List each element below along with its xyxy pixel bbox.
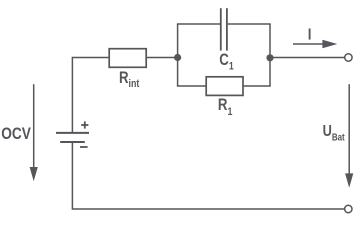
OCV arrow	[33, 84, 35, 168]
wire loop top left segment to C1	[177, 23, 220, 25]
battery bottom plate (-)	[60, 141, 85, 143]
terminal bottom-right (open circle)	[345, 205, 352, 212]
resistor Rint	[109, 49, 146, 68]
battery top plate (+)	[56, 132, 89, 134]
battery plus sign	[81, 121, 88, 128]
wire C1 to loop top right segment	[228, 23, 271, 25]
capacitor C1 plates	[220, 8, 222, 50]
svg-text:R1: R1	[218, 96, 233, 118]
terminal top-right (open circle)	[345, 54, 352, 61]
svg-text:Rint: Rint	[119, 69, 140, 90]
wire Rint to node A	[146, 57, 177, 59]
resistor R1	[206, 77, 243, 96]
wire battery to Rint (left vertical + top horizontal)	[72, 58, 109, 133]
wire battery to bottom rail	[72, 143, 344, 209]
wire RC loop right vertical	[269, 24, 271, 86]
current arrow I	[293, 43, 324, 45]
UBat arrow	[348, 84, 350, 174]
wire node B to top terminal	[270, 57, 345, 59]
wire R1 to loop right	[243, 85, 271, 87]
wire loop bottom left segment to R1	[177, 85, 206, 87]
svg-text:OCV: OCV	[1, 125, 31, 143]
label I stroke	[309, 29, 311, 40]
svg-text:C1: C1	[219, 50, 234, 72]
battery minus sign	[80, 146, 88, 148]
node B junction dot	[266, 54, 273, 61]
svg-text:UBat: UBat	[323, 123, 345, 143]
node A junction dot	[174, 54, 181, 61]
wire RC loop left vertical	[177, 24, 179, 86]
